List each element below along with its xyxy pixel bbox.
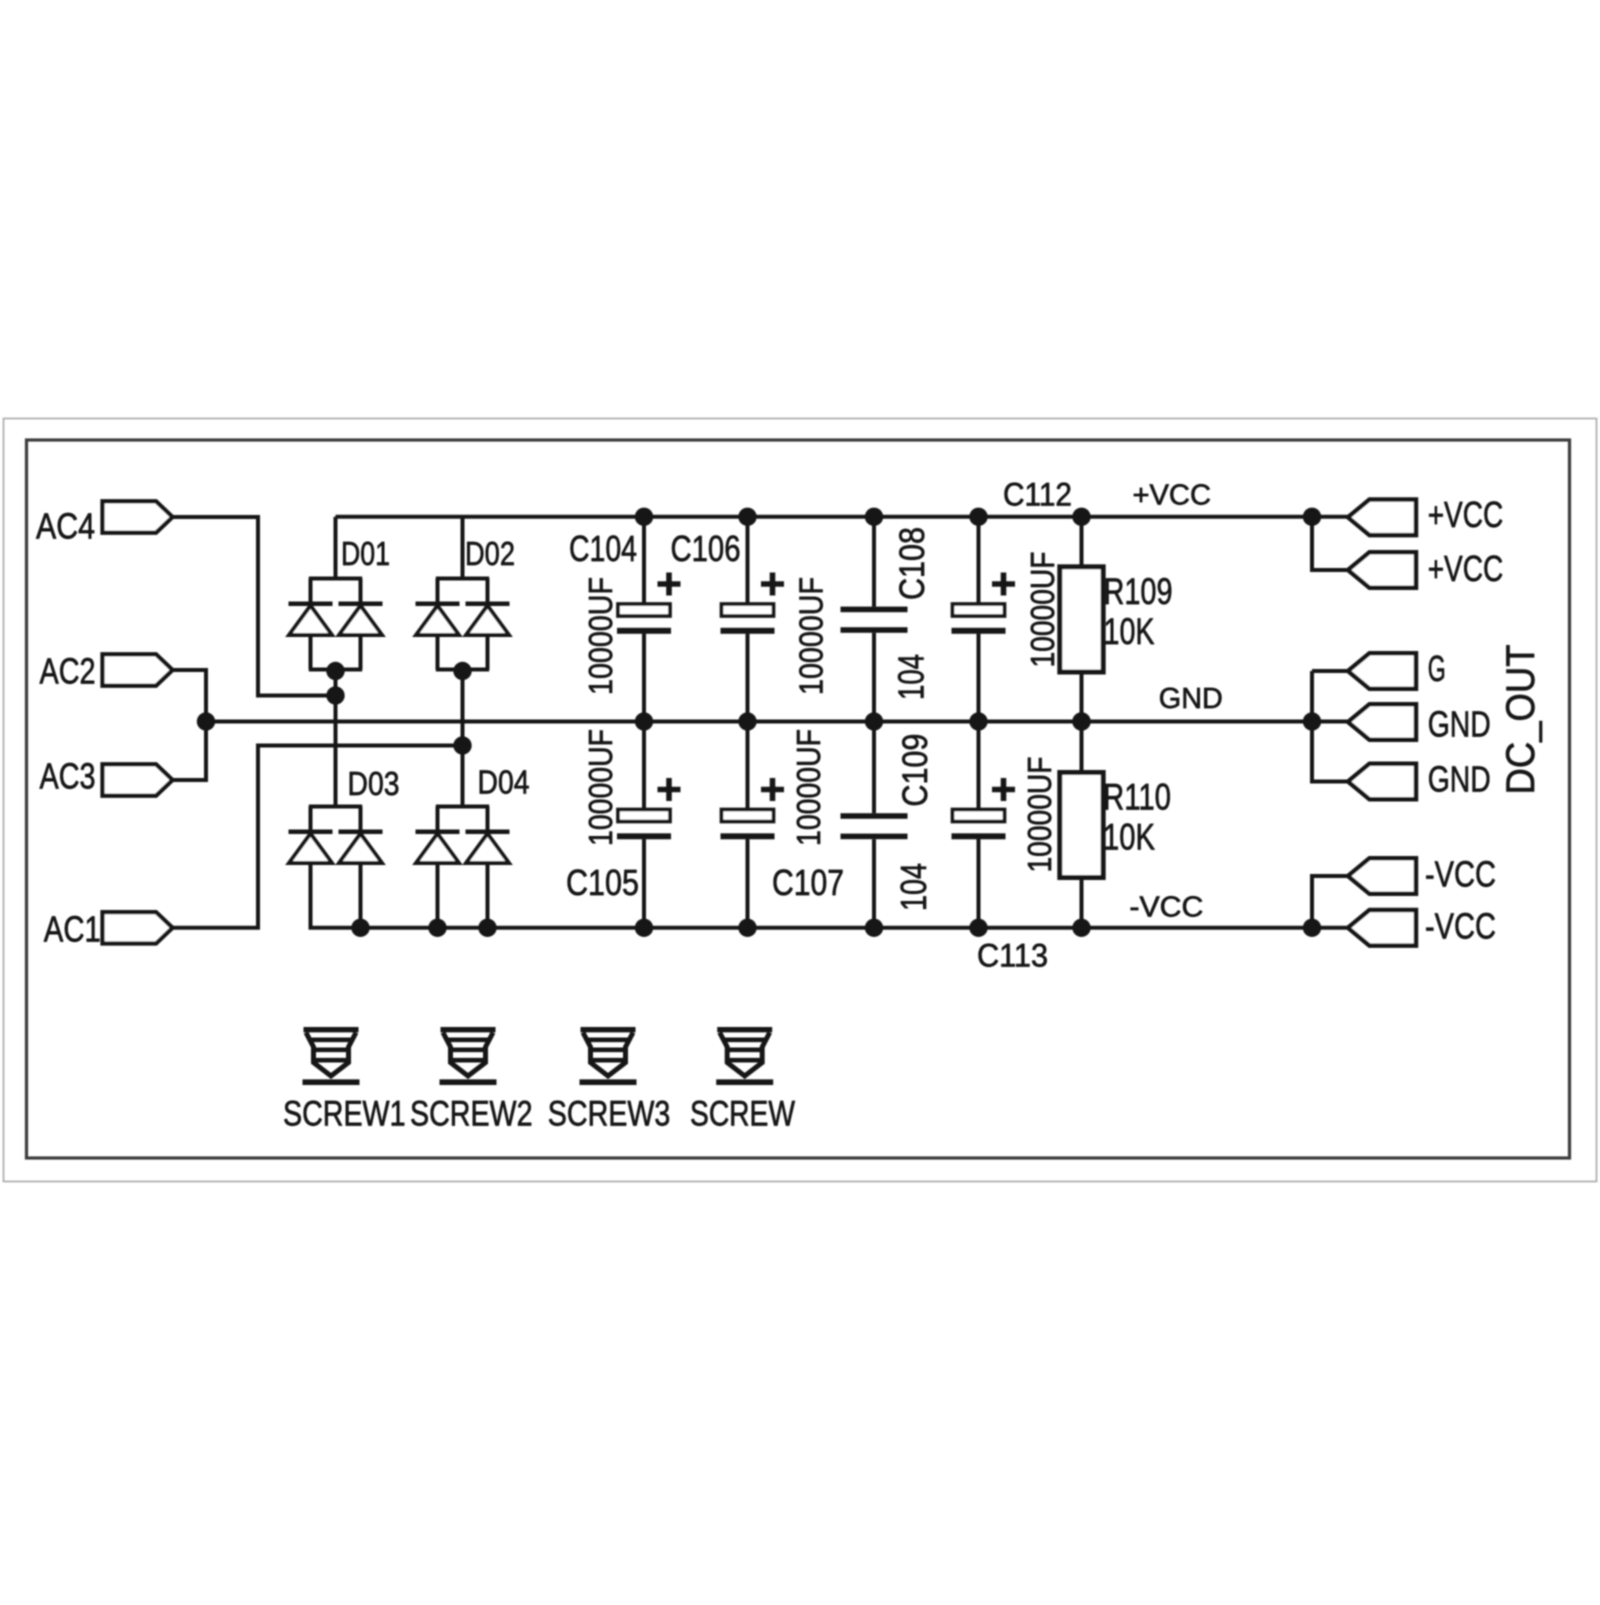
svg-text:-VCC: -VCC xyxy=(1129,891,1203,923)
svg-text:C112: C112 xyxy=(1003,476,1072,512)
svg-text:D02: D02 xyxy=(465,535,515,572)
svg-text:+VCC: +VCC xyxy=(1428,494,1504,535)
svg-text:10000UF: 10000UF xyxy=(1021,757,1058,873)
svg-text:-VCC: -VCC xyxy=(1425,854,1496,895)
svg-text:AC3: AC3 xyxy=(40,755,96,796)
svg-text:D01: D01 xyxy=(341,535,390,572)
svg-text:10K: 10K xyxy=(1104,611,1155,652)
svg-text:10000UF: 10000UF xyxy=(1024,552,1061,668)
svg-text:GND: GND xyxy=(1428,759,1491,800)
svg-text:-VCC: -VCC xyxy=(1425,906,1496,947)
svg-text:C105: C105 xyxy=(566,862,639,903)
svg-text:10000UF: 10000UF xyxy=(582,577,619,695)
svg-text:+VCC: +VCC xyxy=(1428,548,1504,589)
svg-text:D04: D04 xyxy=(478,764,530,801)
svg-text:104: 104 xyxy=(893,863,934,911)
svg-text:C109: C109 xyxy=(896,734,935,807)
svg-text:DC_OUT: DC_OUT xyxy=(1499,645,1543,795)
svg-text:C106: C106 xyxy=(671,528,741,569)
svg-text:GND: GND xyxy=(1159,683,1223,715)
svg-text:+VCC: +VCC xyxy=(1133,479,1212,511)
svg-text:10000UF: 10000UF xyxy=(582,729,619,846)
svg-text:GND: GND xyxy=(1428,703,1491,744)
svg-text:AC2: AC2 xyxy=(40,651,96,692)
svg-text:104: 104 xyxy=(891,654,932,700)
svg-text:10000UF: 10000UF xyxy=(790,729,827,846)
svg-text:C113: C113 xyxy=(977,938,1048,974)
svg-text:SCREW3: SCREW3 xyxy=(548,1095,671,1134)
svg-text:AC1: AC1 xyxy=(44,909,101,950)
svg-text:R109: R109 xyxy=(1104,571,1173,612)
svg-text:R110: R110 xyxy=(1103,777,1171,818)
svg-text:SCREW2: SCREW2 xyxy=(410,1095,533,1134)
svg-text:10000UF: 10000UF xyxy=(793,577,830,695)
svg-text:C104: C104 xyxy=(569,528,637,569)
svg-text:SCREW: SCREW xyxy=(690,1095,795,1134)
svg-text:G: G xyxy=(1428,648,1446,689)
svg-text:D03: D03 xyxy=(348,765,400,802)
svg-text:10K: 10K xyxy=(1103,817,1155,858)
svg-text:AC4: AC4 xyxy=(36,506,95,547)
svg-text:C107: C107 xyxy=(772,862,844,903)
svg-text:SCREW1: SCREW1 xyxy=(283,1095,406,1134)
svg-text:C108: C108 xyxy=(893,527,932,600)
